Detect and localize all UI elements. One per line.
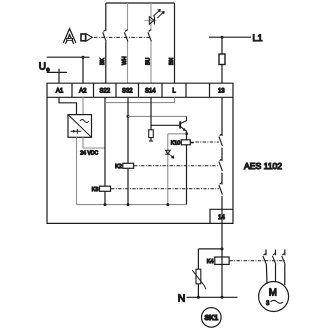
terminal row bottom edge xyxy=(47,96,233,98)
safety contact K10 xyxy=(219,134,223,146)
node dot emitter xyxy=(185,132,188,135)
PSU output to K3 branch xyxy=(83,137,105,148)
collector feed wire xyxy=(128,115,187,117)
safety contact K2 xyxy=(219,159,223,171)
svg-text:U: U xyxy=(39,61,46,72)
relay coil K2 xyxy=(123,163,134,168)
node dot S32-collector xyxy=(127,115,130,118)
node dot bus LED xyxy=(166,203,169,206)
N line xyxy=(187,296,238,298)
svg-text:WH: WH xyxy=(122,56,128,65)
wire emitter to LED branch xyxy=(168,133,187,135)
svg-text:BN: BN xyxy=(169,58,175,65)
node dot bus K3 xyxy=(104,203,107,206)
svg-text:K4: K4 xyxy=(207,259,214,265)
svg-text:L1: L1 xyxy=(253,33,263,43)
safety contact K3 xyxy=(219,182,223,194)
wire emitter to K10 xyxy=(186,134,188,140)
safety circuit tag SK1 xyxy=(202,308,222,328)
wire L1 to fuse xyxy=(221,37,223,54)
relay coil K10 xyxy=(181,140,190,145)
Ue upper supply line xyxy=(47,56,90,58)
wire WH xyxy=(127,3,129,83)
wire BK xyxy=(105,3,107,83)
wire BN xyxy=(174,3,176,83)
svg-text:K2: K2 xyxy=(115,164,122,170)
wire to A1 xyxy=(58,69,60,84)
wire to A2 xyxy=(82,57,84,83)
svg-text:K10: K10 xyxy=(171,141,181,147)
wire L feed xyxy=(105,97,175,102)
contactor contact 1 xyxy=(263,253,267,264)
resistor R1 xyxy=(150,125,152,141)
actuator magnet xyxy=(81,34,92,42)
svg-text:S14: S14 xyxy=(145,89,156,95)
mech link K2 to contact xyxy=(134,165,219,167)
LED D1 on BU wire xyxy=(144,9,164,24)
motor M1 xyxy=(259,282,289,312)
svg-text:N: N xyxy=(178,292,186,304)
AES 1102 module box xyxy=(47,83,233,223)
switch contact on BU xyxy=(148,30,152,42)
switch contact on WH xyxy=(124,30,128,42)
PSU output to bus xyxy=(76,137,78,204)
wire fuse to terminal 13 xyxy=(221,65,223,84)
wire S32 / K2 branch xyxy=(127,97,129,204)
svg-text:BU: BU xyxy=(145,58,151,65)
svg-text:A2: A2 xyxy=(79,89,87,95)
relay coil K3 xyxy=(100,186,111,191)
switch contact on BK xyxy=(103,30,107,42)
Ue lower supply line xyxy=(47,71,67,73)
actuating dash-dot link xyxy=(94,36,152,38)
wire BU xyxy=(150,3,152,83)
svg-text:3: 3 xyxy=(266,301,270,307)
node dot A2 supply xyxy=(82,56,85,59)
wire A2 to PSU xyxy=(82,97,84,114)
node dot N varistor xyxy=(197,296,200,299)
terminal 14 box xyxy=(210,209,233,223)
wire S22 / K3 branch xyxy=(104,97,106,204)
svg-text:K3: K3 xyxy=(92,187,99,193)
terminator bar below R1 xyxy=(149,140,153,142)
phase wire 2 xyxy=(275,250,277,282)
phase wire 1 xyxy=(266,250,267,285)
contactor contact 2 xyxy=(272,253,276,264)
svg-text:AES 1102: AES 1102 xyxy=(244,161,282,171)
mech link K10 to contact xyxy=(190,142,194,144)
internal 0V bus xyxy=(77,204,187,206)
svg-text:S32: S32 xyxy=(122,89,133,95)
mech link K4 to motor contacts xyxy=(229,260,285,262)
transistor Q1 xyxy=(180,116,186,133)
svg-text:BK: BK xyxy=(100,58,106,65)
svg-text:S22: S22 xyxy=(99,89,110,95)
node dot L1 xyxy=(221,36,224,39)
output wire 13 to 14 xyxy=(221,97,223,223)
branch wire to varistor xyxy=(198,249,222,269)
L1 line xyxy=(209,36,251,38)
sensor box B1 xyxy=(106,2,175,4)
wire varistor to N xyxy=(197,284,199,298)
phase wire 3 xyxy=(284,250,286,286)
svg-text:13: 13 xyxy=(218,89,225,95)
wire K10 to bus xyxy=(186,145,188,205)
contactor contact 3 xyxy=(282,253,286,264)
svg-text:A1: A1 xyxy=(56,89,64,95)
wire A1 to PSU xyxy=(59,97,77,114)
node dot N K4 xyxy=(221,296,224,299)
wire 14 to K4 xyxy=(221,223,223,297)
svg-text:L: L xyxy=(172,89,176,95)
fuse F1 xyxy=(219,54,225,65)
mech link K3 to contact xyxy=(111,188,219,190)
LED D2 xyxy=(165,150,174,158)
terminal dividers xyxy=(72,83,210,97)
wire S14 to base xyxy=(151,97,180,125)
svg-text:24 VDC: 24 VDC xyxy=(80,151,98,157)
LED branch wire xyxy=(167,134,169,205)
power supply U2 xyxy=(68,115,92,138)
node dot branch xyxy=(221,247,224,250)
varistor R2 xyxy=(192,269,206,289)
contactor coil K4 xyxy=(215,257,229,264)
label A xyxy=(64,32,74,44)
node dot bus K2 xyxy=(127,203,130,206)
svg-text:SK1: SK1 xyxy=(204,315,218,322)
svg-text:M: M xyxy=(269,288,277,299)
